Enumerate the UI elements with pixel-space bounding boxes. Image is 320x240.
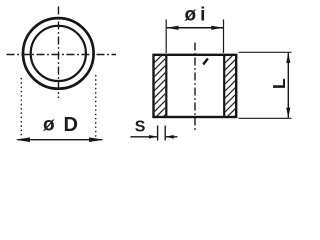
svg-text:øi: øi bbox=[185, 5, 210, 26]
svg-text:D: D bbox=[64, 114, 78, 136]
svg-text:L: L bbox=[269, 78, 289, 89]
svg-text:S: S bbox=[135, 119, 146, 136]
svg-text:ø: ø bbox=[43, 115, 55, 136]
